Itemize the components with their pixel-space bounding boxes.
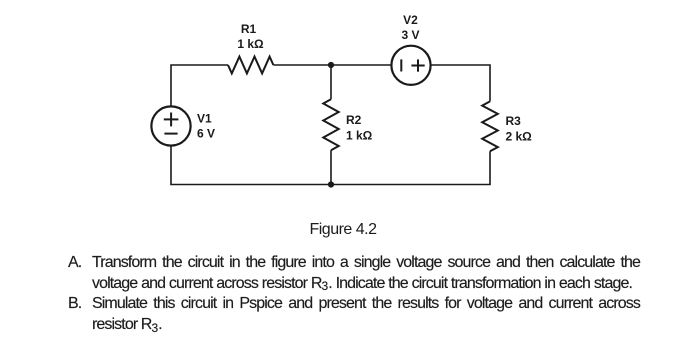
- svg-text:V2: V2: [403, 13, 418, 27]
- svg-text:1 kΩ: 1 kΩ: [346, 128, 373, 142]
- V2 minus terminal bar: [400, 59, 402, 71]
- svg-text:R2: R2: [346, 113, 362, 127]
- label R3: [506, 114, 533, 143]
- svg-text:V1: V1: [197, 111, 212, 125]
- voltage source V2 (circle, in top wire): [391, 46, 430, 85]
- item A line 1: [92, 253, 640, 273]
- label V1: [197, 111, 215, 140]
- wire: top middle segment from R1 right terminal past node A to V2 left terminal: [273, 64, 391, 66]
- resistor R1 (zigzag, horizontal, top wire): [228, 57, 273, 74]
- svg-text:R3: R3: [506, 114, 522, 128]
- item A marker: [68, 253, 81, 273]
- wire: top-right segment from V2 right terminal to top-right corner down to R3: [431, 65, 490, 101]
- wire: R2 branch bottom stub: [330, 150, 332, 184]
- wire: left-bottom / bottom rail / right-bottom (V1 to bottom-left corner, across, up to R3): [171, 146, 490, 185]
- node B: junction dot at bottom of R2 branch: [328, 181, 334, 187]
- label R1: [237, 22, 264, 51]
- V1 plus sign: [164, 118, 179, 120]
- svg-text:6 V: 6 V: [197, 127, 215, 141]
- item B line 2: [92, 315, 162, 335]
- svg-text:2 kΩ: 2 kΩ: [506, 129, 533, 143]
- wire: R2 branch top stub: [330, 65, 332, 99]
- node A: junction dot at top of R2 branch: [328, 62, 334, 68]
- resistor R2 (zigzag, vertical, middle branch): [323, 99, 338, 150]
- label R2: [346, 113, 373, 142]
- item A line 2: [92, 274, 632, 294]
- V1 minus bar: [164, 133, 177, 135]
- svg-text:1 kΩ: 1 kΩ: [237, 37, 264, 51]
- caption: Figure 4.2: [0, 221, 686, 239]
- item B marker: [68, 294, 81, 314]
- resistor R3 (zigzag, vertical, right branch): [482, 101, 498, 151]
- wire: top-left segment from V1 branch corner to R1 left terminal: [171, 65, 228, 107]
- item B line 1: [92, 294, 640, 314]
- svg-text:R1: R1: [241, 22, 257, 36]
- voltage source V1 (circle, left branch): [151, 106, 190, 145]
- V2 plus sign: [411, 65, 424, 67]
- label V2: [401, 13, 419, 42]
- svg-text:3 V: 3 V: [401, 28, 419, 42]
